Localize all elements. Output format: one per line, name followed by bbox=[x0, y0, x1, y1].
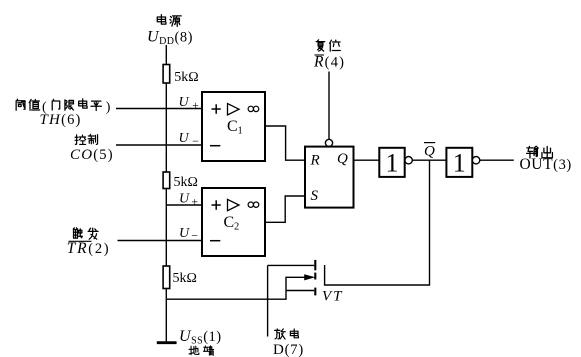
svg-text:1: 1 bbox=[238, 126, 243, 137]
label C1 bbox=[227, 118, 243, 137]
wire discharge bbox=[267, 265, 269, 336]
C2 infinity bbox=[248, 202, 259, 207]
C1 infinity bbox=[248, 106, 259, 111]
wire bbox=[165, 289, 167, 343]
VT drain wire bbox=[268, 264, 315, 266]
inverter bubble 1b bbox=[472, 157, 479, 164]
C2 minus sign bbox=[210, 240, 220, 242]
net label 地端 (ground terminal) bbox=[189, 346, 214, 355]
C1 plus sign bbox=[212, 104, 221, 114]
wire C2 to S bbox=[265, 196, 305, 222]
net label 复位 (reset) bbox=[316, 40, 340, 51]
svg-text:5kΩ: 5kΩ bbox=[173, 271, 197, 286]
svg-text:TR(2): TR(2) bbox=[67, 240, 111, 257]
resistor R2 bbox=[163, 172, 170, 189]
wire bbox=[165, 45, 167, 65]
wire Qbar to gate bbox=[325, 160, 430, 285]
svg-text:R: R bbox=[310, 152, 320, 168]
net label 放电 (discharge) bbox=[275, 329, 299, 339]
svg-text:2: 2 bbox=[234, 222, 239, 233]
label U- C2 bbox=[179, 226, 198, 243]
VT body arrow wire bbox=[286, 275, 314, 280]
label C2 bbox=[224, 214, 240, 233]
wire U+ C2 bbox=[166, 204, 202, 206]
svg-text:CO(5): CO(5) bbox=[70, 147, 114, 163]
svg-text:U+: U+ bbox=[179, 192, 198, 209]
ground USS(1) bbox=[157, 341, 177, 344]
wire Q bbox=[354, 159, 380, 161]
svg-text:R(4): R(4) bbox=[313, 54, 345, 71]
net label 阈值(门限电平) threshold bbox=[16, 99, 111, 115]
svg-text:VT: VT bbox=[322, 288, 344, 304]
svg-text:5kΩ: 5kΩ bbox=[174, 175, 198, 190]
C1 triangle bbox=[228, 104, 240, 115]
svg-text:Q: Q bbox=[337, 151, 348, 167]
reset bubble bbox=[325, 139, 332, 146]
net label R(4) pin 4 with overbar bbox=[313, 54, 345, 71]
net label USS(1) pin 1 bbox=[179, 328, 222, 347]
svg-text:D(7): D(7) bbox=[273, 342, 304, 357]
label U+ C2 bbox=[179, 192, 198, 209]
net label Qbar with overbar bbox=[424, 143, 435, 160]
svg-text:OUT(3): OUT(3) bbox=[520, 156, 572, 173]
op-amp comparator C1 box bbox=[202, 92, 265, 161]
net label 输出 (output) bbox=[527, 146, 553, 158]
net label CO(5) pin 5 bbox=[70, 147, 114, 163]
C2 plus sign bbox=[212, 200, 221, 210]
C1 minus sign bbox=[210, 145, 220, 147]
svg-text:Q: Q bbox=[424, 144, 435, 160]
net label 触发 (trigger) bbox=[73, 228, 98, 239]
label U+ bbox=[179, 95, 200, 112]
resistor R3 bbox=[163, 266, 170, 289]
label U- bbox=[179, 131, 200, 148]
VT channel bar bottom bbox=[314, 288, 316, 296]
svg-text:C: C bbox=[227, 118, 238, 135]
wire OUT bbox=[480, 159, 514, 161]
flip-flop box bbox=[305, 147, 354, 208]
svg-text:U−: U− bbox=[179, 226, 198, 243]
VT channel bar middle bbox=[314, 273, 316, 280]
svg-text:1: 1 bbox=[386, 148, 399, 177]
VT channel bar top bbox=[314, 260, 316, 270]
inverter bubble 1a bbox=[405, 157, 412, 164]
C2 triangle bbox=[228, 199, 240, 210]
net label TH(6) pin 6 bbox=[40, 112, 82, 128]
net label 电源 (power) bbox=[157, 15, 181, 27]
inverter gate 1a box bbox=[379, 148, 404, 177]
wire C1 to R bbox=[265, 126, 305, 160]
svg-text:): ) bbox=[106, 100, 111, 115]
svg-text:5kΩ: 5kΩ bbox=[174, 70, 198, 85]
VT source wire bbox=[286, 290, 314, 292]
wire TH bbox=[116, 108, 202, 110]
resistor R1 bbox=[163, 65, 170, 84]
svg-text:C: C bbox=[224, 214, 235, 231]
wire Qbar bbox=[412, 159, 446, 161]
svg-text:1: 1 bbox=[453, 148, 466, 177]
svg-text:TH(6): TH(6) bbox=[40, 112, 82, 128]
wire bbox=[165, 189, 167, 267]
op-amp comparator C2 box bbox=[202, 188, 265, 256]
net label TR(2) pin 2 with overbar bbox=[67, 240, 111, 257]
svg-text:S: S bbox=[311, 188, 319, 204]
net label 控制 (control) bbox=[75, 134, 97, 144]
wire bbox=[165, 83, 167, 172]
wire TR bbox=[118, 240, 203, 242]
wire reset bbox=[328, 72, 330, 140]
wire CO bbox=[116, 144, 202, 146]
inverter gate 1b box bbox=[446, 148, 472, 177]
net label UDD(8) pin 8 bbox=[147, 29, 193, 48]
wire VT to divider bbox=[166, 277, 286, 300]
